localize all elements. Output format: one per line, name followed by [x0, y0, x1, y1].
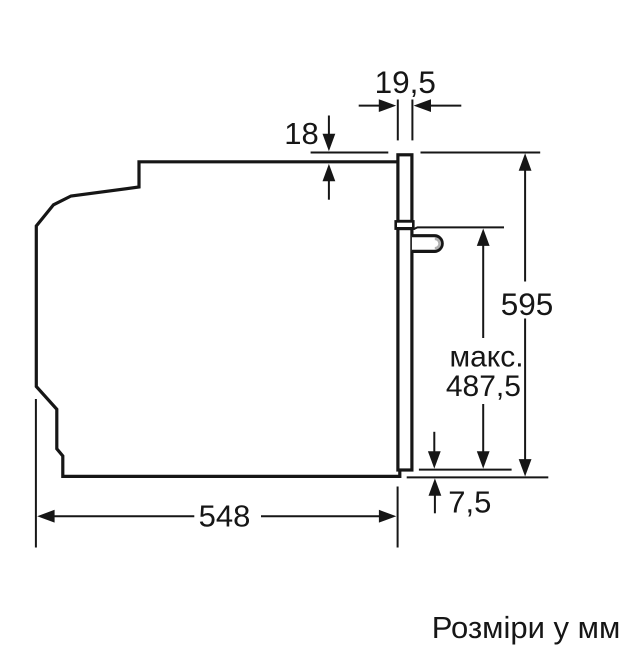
label макс.: [449, 341, 523, 374]
door front panel lower section: [398, 229, 412, 470]
oven body outline: [36, 162, 400, 477]
extension line 548 left: [35, 399, 37, 548]
dimension 595: [519, 153, 532, 476]
extension line 19,5 right: [411, 100, 413, 141]
hinge tab highlight: [435, 239, 440, 249]
svg-text:7,5: 7,5: [448, 484, 491, 519]
svg-text:18: 18: [284, 116, 318, 151]
dimension макс. 487,5: [477, 229, 490, 469]
extension line door bottom level: [419, 469, 512, 471]
caption Розміри у мм: [432, 610, 621, 645]
dimension 19,5 right arrow: [414, 99, 462, 112]
label 7,5: [448, 484, 491, 519]
hinge tab: [412, 236, 442, 252]
extension line top-left (door top level): [311, 152, 389, 154]
label 19,5: [375, 64, 436, 100]
extension line 19,5 left: [397, 100, 399, 141]
dimension 19,5 left arrow: [359, 99, 397, 112]
door front panel upper section: [398, 155, 412, 222]
label 595: [501, 286, 554, 322]
dimension 18 upper arrow: [323, 116, 336, 152]
svg-text:595: 595: [501, 286, 554, 322]
svg-text:19,5: 19,5: [375, 64, 436, 100]
extension line top-right (door top level): [421, 152, 541, 154]
svg-text:487,5: 487,5: [446, 370, 521, 403]
dimension 7,5 lower arrow: [429, 478, 442, 513]
label 548: [199, 499, 251, 534]
door panel slot band: [396, 221, 414, 228]
svg-text:Розміри у мм: Розміри у мм: [432, 610, 621, 645]
extension line 548 right: [397, 487, 399, 548]
svg-text:макс.: макс.: [449, 341, 523, 374]
extension line chassis bottom level: [407, 476, 549, 478]
dimension 7,5 upper arrow: [428, 432, 441, 469]
label 18: [284, 116, 318, 151]
dimension 18 lower arrow: [323, 164, 336, 200]
label 487,5: [446, 370, 521, 403]
svg-text:548: 548: [199, 499, 251, 534]
extension line hinge level: [414, 227, 505, 229]
dimension 548: [37, 510, 396, 523]
